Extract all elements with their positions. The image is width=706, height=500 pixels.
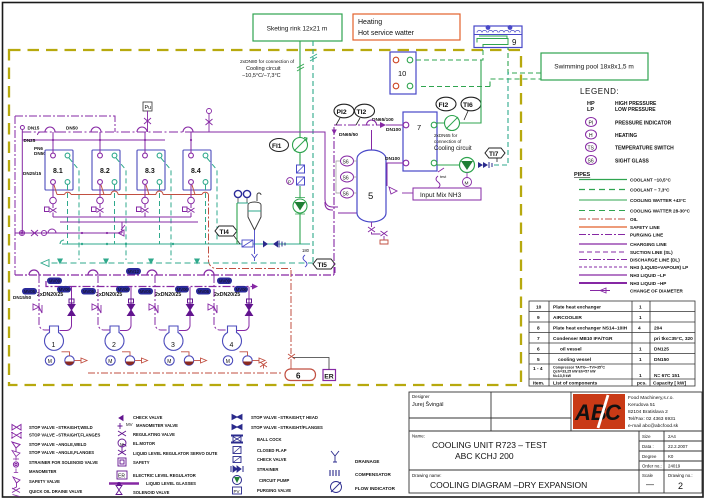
svg-text:8.4: 8.4 — [191, 168, 201, 175]
sight glasses S6 — [336, 156, 357, 198]
svg-text:1: 1 — [639, 357, 642, 363]
label: 2xDN80 connection note — [240, 59, 295, 79]
svg-text:Drawing name:: Drawing name: — [412, 473, 442, 478]
svg-text:COMPENSATOR: COMPENSATOR — [355, 472, 391, 477]
discharge drops with solenoid+check — [60, 287, 250, 331]
svg-text:2xDN20/25: 2xDN20/25 — [96, 292, 122, 298]
svg-text:Data :: Data : — [642, 444, 654, 449]
svg-text:180: 180 — [302, 248, 310, 253]
2xDN20/25 labels — [37, 292, 240, 298]
svg-text:9: 9 — [537, 315, 540, 321]
heaters (blue squares) — [297, 165, 305, 185]
svg-text:7: 7 — [417, 123, 421, 132]
svg-text:COOLING UNIT R723 – TEST: COOLING UNIT R723 – TEST — [432, 440, 547, 450]
svg-text:1: 1 — [52, 342, 56, 349]
svg-text:STOP VALVE –ANGLE,WELD: STOP VALVE –ANGLE,WELD — [29, 442, 86, 447]
svg-text:1 - 4: 1 - 4 — [533, 366, 543, 372]
svg-text:DN50: DN50 — [66, 126, 78, 131]
svg-text:MV12: MV12 — [128, 269, 140, 274]
svg-text:MV05: MV05 — [198, 289, 210, 294]
svg-text:test: test — [440, 175, 447, 179]
svg-text:3: 3 — [171, 342, 175, 349]
svg-text:Food Machinery,s.r.o.: Food Machinery,s.r.o. — [628, 395, 674, 401]
svg-text:COOLANT −10,5°C: COOLANT −10,5°C — [630, 178, 671, 183]
svg-text:STRAINER FOR SOLENOID VALVE: STRAINER FOR SOLENOID VALVE — [29, 460, 98, 465]
svg-text:LIQUID LEVEL REGULATOR SERVO D: LIQUID LEVEL REGULATOR SERVO DUTE — [133, 451, 218, 456]
wire: pool return green dashed — [508, 47, 541, 73]
svg-text:MV05: MV05 — [24, 289, 36, 294]
heat exchanger 8.4 — [183, 150, 211, 190]
flow indicator FI2 — [436, 97, 460, 130]
svg-text:10: 10 — [398, 69, 406, 78]
svg-text:Jurej Švingál: Jurej Švingál — [412, 401, 444, 408]
pipe bridge hoops on header — [45, 127, 193, 132]
svg-text:QUICK OIL DRAINE VALVE: QUICK OIL DRAINE VALVE — [29, 489, 82, 494]
svg-text:1: 1 — [639, 373, 642, 379]
svg-text:Hot service watter: Hot service watter — [358, 30, 415, 37]
svg-text:COOLING DIAGRAM –DRY EXPANS: COOLING DIAGRAM –DRY EXPANSION — [430, 480, 587, 490]
svg-text:22.2.2007: 22.2.2007 — [668, 444, 688, 449]
svg-text:2: 2 — [112, 342, 116, 349]
svg-text:OIL: OIL — [630, 217, 638, 222]
svg-text:Item.: Item. — [533, 381, 544, 387]
skating rink box — [253, 14, 342, 41]
svg-text:N=13,5 kW: N=13,5 kW — [553, 374, 572, 378]
condenser water pump — [437, 72, 508, 173]
svg-text:—: — — [646, 480, 654, 489]
svg-text:SIGHT GLASS: SIGHT GLASS — [615, 159, 650, 165]
svg-text:PI2: PI2 — [337, 109, 347, 116]
circuit pump (skating) — [293, 198, 307, 215]
compressor 4 — [223, 326, 266, 365]
compressor 1 — [45, 326, 88, 365]
svg-text:DN15/50: DN15/50 — [13, 295, 32, 300]
wire: vessel 5 bottom drain — [368, 222, 388, 244]
aircooler 9 — [474, 25, 522, 47]
wire: coolant supply bus (teal solid) — [62, 243, 310, 245]
svg-text:P: P — [288, 180, 291, 185]
electric level regulator ER — [293, 358, 336, 381]
svg-text:DN100: DN100 — [385, 156, 400, 162]
svg-text:Scale: Scale — [642, 473, 654, 478]
wire: skating rink return (coolant dashed) — [312, 41, 314, 263]
svg-text:PIPES: PIPES — [574, 172, 591, 178]
svg-text:Capacity [ kW]: Capacity [ kW] — [653, 381, 686, 387]
svg-text:1: 1 — [639, 305, 642, 311]
flow indicator FI1 — [270, 138, 308, 153]
svg-text:10: 10 — [536, 305, 542, 311]
svg-text:MV05: MV05 — [83, 289, 95, 294]
svg-text:Order no.:: Order no.: — [642, 464, 662, 469]
svg-text:DN150: DN150 — [654, 357, 669, 363]
svg-text:Designer: Designer — [412, 394, 430, 399]
wire: pool supply green dashed — [421, 79, 541, 87]
svg-text:S6: S6 — [343, 192, 349, 198]
wire: vessel 5 liquid out to Input mix — [386, 162, 396, 164]
wire: HX coolant out diagonals (dashed teal) — [69, 158, 217, 260]
svg-text:2xDN80 for connection of: 2xDN80 for connection of — [240, 59, 295, 65]
svg-text:BALL COCK: BALL COCK — [257, 437, 282, 442]
temperature indicator TI5 — [313, 259, 335, 273]
svg-text:2: 2 — [678, 481, 683, 491]
temperature indicator TI2 — [355, 104, 375, 125]
suction angle valves — [33, 304, 42, 313]
svg-text:N= 67C 151: N= 67C 151 — [654, 373, 680, 379]
svg-text:MANOMETER: MANOMETER — [29, 469, 56, 474]
svg-text:pri tko=35°C, 320: pri tko=35°C, 320 — [654, 336, 693, 342]
svg-text:6: 6 — [296, 372, 301, 381]
svg-text:COOLANT − 7,3°C: COOLANT − 7,3°C — [630, 188, 670, 193]
svg-text:MV05: MV05 — [140, 289, 152, 294]
svg-text:ER: ER — [324, 374, 334, 381]
svg-text:9: 9 — [512, 38, 517, 47]
svg-text:DN100: DN100 — [386, 127, 401, 133]
svg-text:5: 5 — [537, 357, 540, 363]
svg-text:CHARGING LINE: CHARGING LINE — [630, 242, 667, 247]
svg-text:5: 5 — [368, 191, 373, 202]
svg-text:S6: S6 — [588, 159, 594, 165]
wire: suction header to vessel — [187, 132, 338, 207]
column 1 — [11, 425, 22, 497]
svg-text:STOP VALVE –STRAIGHT,T HEAD: STOP VALVE –STRAIGHT,T HEAD — [251, 415, 318, 420]
compressor 3 — [164, 326, 207, 365]
svg-text:1: 1 — [639, 315, 642, 321]
svg-text:DN125: DN125 — [654, 347, 669, 353]
heating box — [353, 14, 460, 40]
heat exchanger 8.1 — [45, 150, 73, 190]
svg-text:ELECTRIC LEVEL REGULATOR: ELECTRIC LEVEL REGULATOR — [133, 473, 196, 478]
svg-text:cooling vessel: cooling vessel — [558, 357, 591, 363]
svg-text:Name:: Name: — [412, 434, 425, 439]
svg-text:STOP VALVE –STRAIGHT/FLANGES: STOP VALVE –STRAIGHT/FLANGES — [251, 425, 323, 430]
closed flap + strainer fittings — [242, 240, 310, 267]
svg-text:pcs.: pcs. — [637, 382, 647, 387]
wire: suction header DN50 — [22, 131, 187, 133]
svg-text:Degree: Degree — [642, 454, 657, 459]
svg-text:Plate heat exchanger: Plate heat exchanger — [553, 305, 601, 311]
svg-text:AIRCOOLER: AIRCOOLER — [553, 315, 582, 321]
name cell — [412, 434, 547, 462]
svg-text:DN65/50: DN65/50 — [339, 132, 358, 138]
svg-text:PURGING LINE: PURGING LINE — [630, 233, 663, 238]
svg-text:Pu: Pu — [145, 105, 152, 111]
svg-text:SOLENOID VALVE: SOLENOID VALVE — [133, 490, 170, 495]
svg-text:LEGEND:: LEGEND: — [580, 87, 619, 96]
Input Mix NH3 box — [402, 188, 481, 200]
svg-text:COOLING WATTER 28-30°C: COOLING WATTER 28-30°C — [630, 209, 691, 214]
oil vessel 6 — [260, 354, 316, 381]
plate heat exchanger 10 — [390, 52, 416, 94]
wire: coolant return bus (teal dashed, arrows) — [41, 259, 313, 267]
svg-text:MV09: MV09 — [219, 279, 231, 284]
svg-text:M: M — [120, 442, 124, 447]
svg-text:2xDN65 for: 2xDN65 for — [434, 133, 458, 138]
svg-text:LP: LP — [587, 107, 594, 113]
svg-text:LOW PRESSURE: LOW PRESSURE — [615, 107, 656, 113]
wire: liquid collect bus — [53, 216, 191, 218]
svg-text:Plate heat exchanger NS14–10IH: Plate heat exchanger NS14–10IH — [553, 326, 628, 332]
svg-text:SAFETY VALVE: SAFETY VALVE — [29, 479, 60, 484]
ABC logo — [573, 394, 625, 429]
svg-text:DRAINAGE: DRAINAGE — [355, 459, 380, 464]
svg-text:Size: Size — [642, 434, 651, 439]
temperature indicator TI7 — [485, 148, 505, 162]
suction drops + valves to compressors — [39, 275, 227, 330]
swimming pool box — [541, 53, 648, 80]
svg-text:7: 7 — [537, 336, 540, 342]
svg-text:CHANGE OF DIAMETER: CHANGE OF DIAMETER — [630, 289, 684, 294]
svg-text:TS: TS — [588, 146, 595, 152]
svg-text:4: 4 — [638, 326, 641, 332]
svg-text:CHECK VALVE: CHECK VALVE — [257, 457, 287, 462]
svg-text:4: 4 — [230, 342, 234, 349]
svg-text:C: C — [605, 400, 622, 425]
svg-text:DISCHARGE LINE (DL): DISCHARGE LINE (DL) — [630, 258, 680, 263]
svg-text:FLOW INDICATOR: FLOW INDICATOR — [355, 486, 396, 491]
suction manifold (purple dash-dot) — [15, 270, 334, 275]
info cells — [642, 434, 693, 478]
svg-text:Qch=33,25 kW Eh=57 kW: Qch=33,25 kW Eh=57 kW — [553, 370, 596, 374]
svg-text:CHECK VALVE: CHECK VALVE — [133, 415, 163, 420]
svg-text:DN15: DN15 — [28, 126, 40, 131]
svg-text:TI6: TI6 — [463, 102, 473, 109]
svg-text:NH3 LIQUID −LP: NH3 LIQUID −LP — [630, 273, 666, 278]
MV tag labels — [22, 268, 248, 295]
column 3 — [231, 415, 243, 473]
svg-text:S6: S6 — [343, 176, 349, 182]
svg-text:DN25/15: DN25/15 — [23, 171, 42, 176]
wire: cooling water out of condenser — [437, 60, 481, 123]
svg-text:TI4: TI4 — [220, 229, 230, 236]
svg-text:Condenser MB10 IFA/TGR: Condenser MB10 IFA/TGR — [553, 336, 613, 342]
svg-text:FI1: FI1 — [272, 143, 282, 150]
svg-text:List of components: List of components — [553, 381, 598, 387]
svg-text:8.2: 8.2 — [100, 168, 110, 175]
svg-text:connection of: connection of — [434, 139, 462, 144]
svg-text:Cooling circuit: Cooling circuit — [434, 146, 472, 152]
svg-text:STRAINER: STRAINER — [257, 467, 278, 472]
motor M under pump — [463, 173, 472, 187]
wire: skating rink supply (coolant) — [299, 41, 301, 138]
HX liquid feed valves — [45, 185, 57, 217]
column 2 — [117, 416, 127, 480]
column 4 — [330, 451, 342, 493]
svg-text:CIRCUIT PUMP: CIRCUIT PUMP — [259, 478, 289, 483]
discharge manifold (purple dash-dot) — [46, 281, 256, 287]
svg-text:DN25: DN25 — [24, 138, 36, 143]
svg-text:MV09: MV09 — [49, 279, 61, 284]
wire: pump circuit piping — [236, 203, 238, 244]
purge valve right — [206, 109, 213, 133]
svg-text:Sketing rink 12x21 m: Sketing rink 12x21 m — [267, 26, 328, 33]
wire: HX top risers — [53, 132, 191, 153]
svg-text:Input Mix NH3: Input Mix NH3 — [420, 192, 462, 199]
label 2xDN65 note — [434, 133, 472, 152]
wire: vessel 5 top — [371, 130, 373, 150]
svg-text:STOP VALVE –ANGLE,FLANGES: STOP VALVE –ANGLE,FLANGES — [29, 450, 94, 455]
pressure tap P — [287, 178, 294, 185]
svg-text:K0: K0 — [668, 454, 674, 459]
svg-text:Cooling circuit: Cooling circuit — [246, 66, 281, 72]
svg-text:DN50: DN50 — [34, 151, 46, 156]
svg-text:NH3 (LIQUID+VAPOUR) LP: NH3 (LIQUID+VAPOUR) LP — [630, 265, 688, 270]
purge coil fitting — [436, 168, 447, 188]
svg-text:FI2: FI2 — [439, 102, 449, 109]
svg-text:STOP VALVE –STRAIGHT,FLANGES: STOP VALVE –STRAIGHT,FLANGES — [29, 433, 101, 438]
machinery room boundary (yellow dashed) — [9, 50, 521, 385]
svg-text:−10,5°C/−7,3°C: −10,5°C/−7,3°C — [242, 73, 281, 79]
svg-text:STOP VALVE –STRAIGHT,WELD: STOP VALVE –STRAIGHT,WELD — [29, 425, 93, 430]
wire: purge line dash-dot upper — [15, 116, 115, 132]
wire: HX coolant return verticals — [68, 185, 206, 244]
svg-text:8: 8 — [537, 326, 540, 332]
svg-text:CLOSED FLAP: CLOSED FLAP — [257, 448, 287, 453]
svg-text:8.1: 8.1 — [53, 168, 63, 175]
wire: heating HX to aircooler — [416, 47, 483, 60]
heat exchanger 8.3 — [137, 150, 165, 190]
svg-text:oil vessel: oil vessel — [560, 347, 582, 353]
svg-text:82104 Bratislava 2: 82104 Bratislava 2 — [628, 409, 668, 415]
svg-text:Heating: Heating — [358, 19, 382, 26]
svg-text:S6: S6 — [343, 160, 349, 166]
svg-text:LIQUID LEVEL GLASSES: LIQUID LEVEL GLASSES — [146, 481, 196, 486]
wire: oil line down right — [209, 195, 292, 269]
wire: left risers — [14, 116, 16, 275]
wire: liquid header DN25 — [35, 139, 165, 141]
wire: condenser liquid out left and down — [387, 163, 403, 186]
compressor 2 — [105, 326, 148, 365]
pressure indicator PI2 — [334, 104, 354, 125]
riser expansion elbows — [325, 202, 357, 213]
wire: left liquid run with fittings — [15, 225, 125, 236]
svg-text:6: 6 — [537, 347, 540, 353]
label DN65/50 — [332, 130, 337, 135]
oil return header (red) — [54, 185, 209, 195]
svg-text:2xDN20/25: 2xDN20/25 — [214, 292, 240, 298]
wire: riser to condenser (dash-dot) — [333, 125, 335, 275]
svg-text:COOLING WATTER +43°C: COOLING WATTER +43°C — [630, 198, 687, 203]
svg-text:PV: PV — [234, 489, 240, 494]
svg-text:H: H — [589, 133, 593, 139]
svg-text:MV: MV — [126, 422, 133, 427]
heat exchanger 8.2 — [92, 150, 120, 190]
svg-text:24019: 24019 — [668, 464, 681, 469]
svg-text:Drawing no.:: Drawing no.: — [668, 473, 693, 478]
svg-text:Tel/Fax: 02 4363 6931: Tel/Fax: 02 4363 6931 — [628, 416, 676, 422]
oil drain bus — [88, 372, 283, 374]
drawing name cell — [412, 473, 587, 490]
svg-text:PI: PI — [589, 121, 594, 127]
svg-text:HEATING: HEATING — [615, 133, 637, 139]
svg-text:M: M — [465, 181, 469, 187]
svg-text:TI2: TI2 — [357, 109, 367, 116]
svg-text:SUCTION LINE (SL): SUCTION LINE (SL) — [630, 250, 673, 255]
temperature indicator TI4 — [215, 226, 240, 244]
temperature indicator TI6 — [461, 97, 481, 120]
svg-text:2xDN20/25: 2xDN20/25 — [155, 292, 181, 298]
svg-text:2xDN20/25: 2xDN20/25 — [37, 292, 63, 298]
svg-text:Swimming pool 18x8x1,5 m: Swimming pool 18x8x1,5 m — [554, 64, 633, 71]
svg-text:ABC KCHJ 200: ABC KCHJ 200 — [455, 451, 514, 461]
svg-text:TI7: TI7 — [489, 151, 499, 158]
svg-text:PRESSURE INDICATOR: PRESSURE INDICATOR — [615, 121, 672, 127]
svg-text:e-mail abc@abcfood.sk: e-mail abc@abcfood.sk — [628, 423, 679, 429]
svg-text:SAFETY: SAFETY — [133, 460, 150, 465]
svg-text:2A4: 2A4 — [668, 434, 676, 439]
svg-text:SAFETY LINE: SAFETY LINE — [630, 225, 660, 230]
svg-text:204: 204 — [654, 326, 662, 332]
svg-text:TI5: TI5 — [318, 262, 328, 269]
svg-text:Kerudova 51: Kerudova 51 — [628, 402, 656, 408]
purge valve Pu — [143, 102, 152, 132]
svg-text:REGULATING VALVE: REGULATING VALVE — [133, 432, 175, 437]
svg-text:TEMPERATURE SWITCH: TEMPERATURE SWITCH — [615, 146, 674, 152]
expansion vessel (cone bottom) — [234, 190, 261, 261]
svg-text:ER: ER — [118, 474, 125, 480]
svg-text:1: 1 — [639, 347, 642, 353]
svg-text:EL.MOTOR: EL.MOTOR — [133, 441, 155, 446]
svg-text:MANOMETER VALVE: MANOMETER VALVE — [136, 423, 178, 428]
svg-text:PURGING VALVE: PURGING VALVE — [257, 488, 291, 493]
svg-text:NH3 LIQUID −HP: NH3 LIQUID −HP — [630, 281, 666, 286]
pipes legend — [574, 172, 691, 294]
svg-text:8.3: 8.3 — [145, 168, 155, 175]
